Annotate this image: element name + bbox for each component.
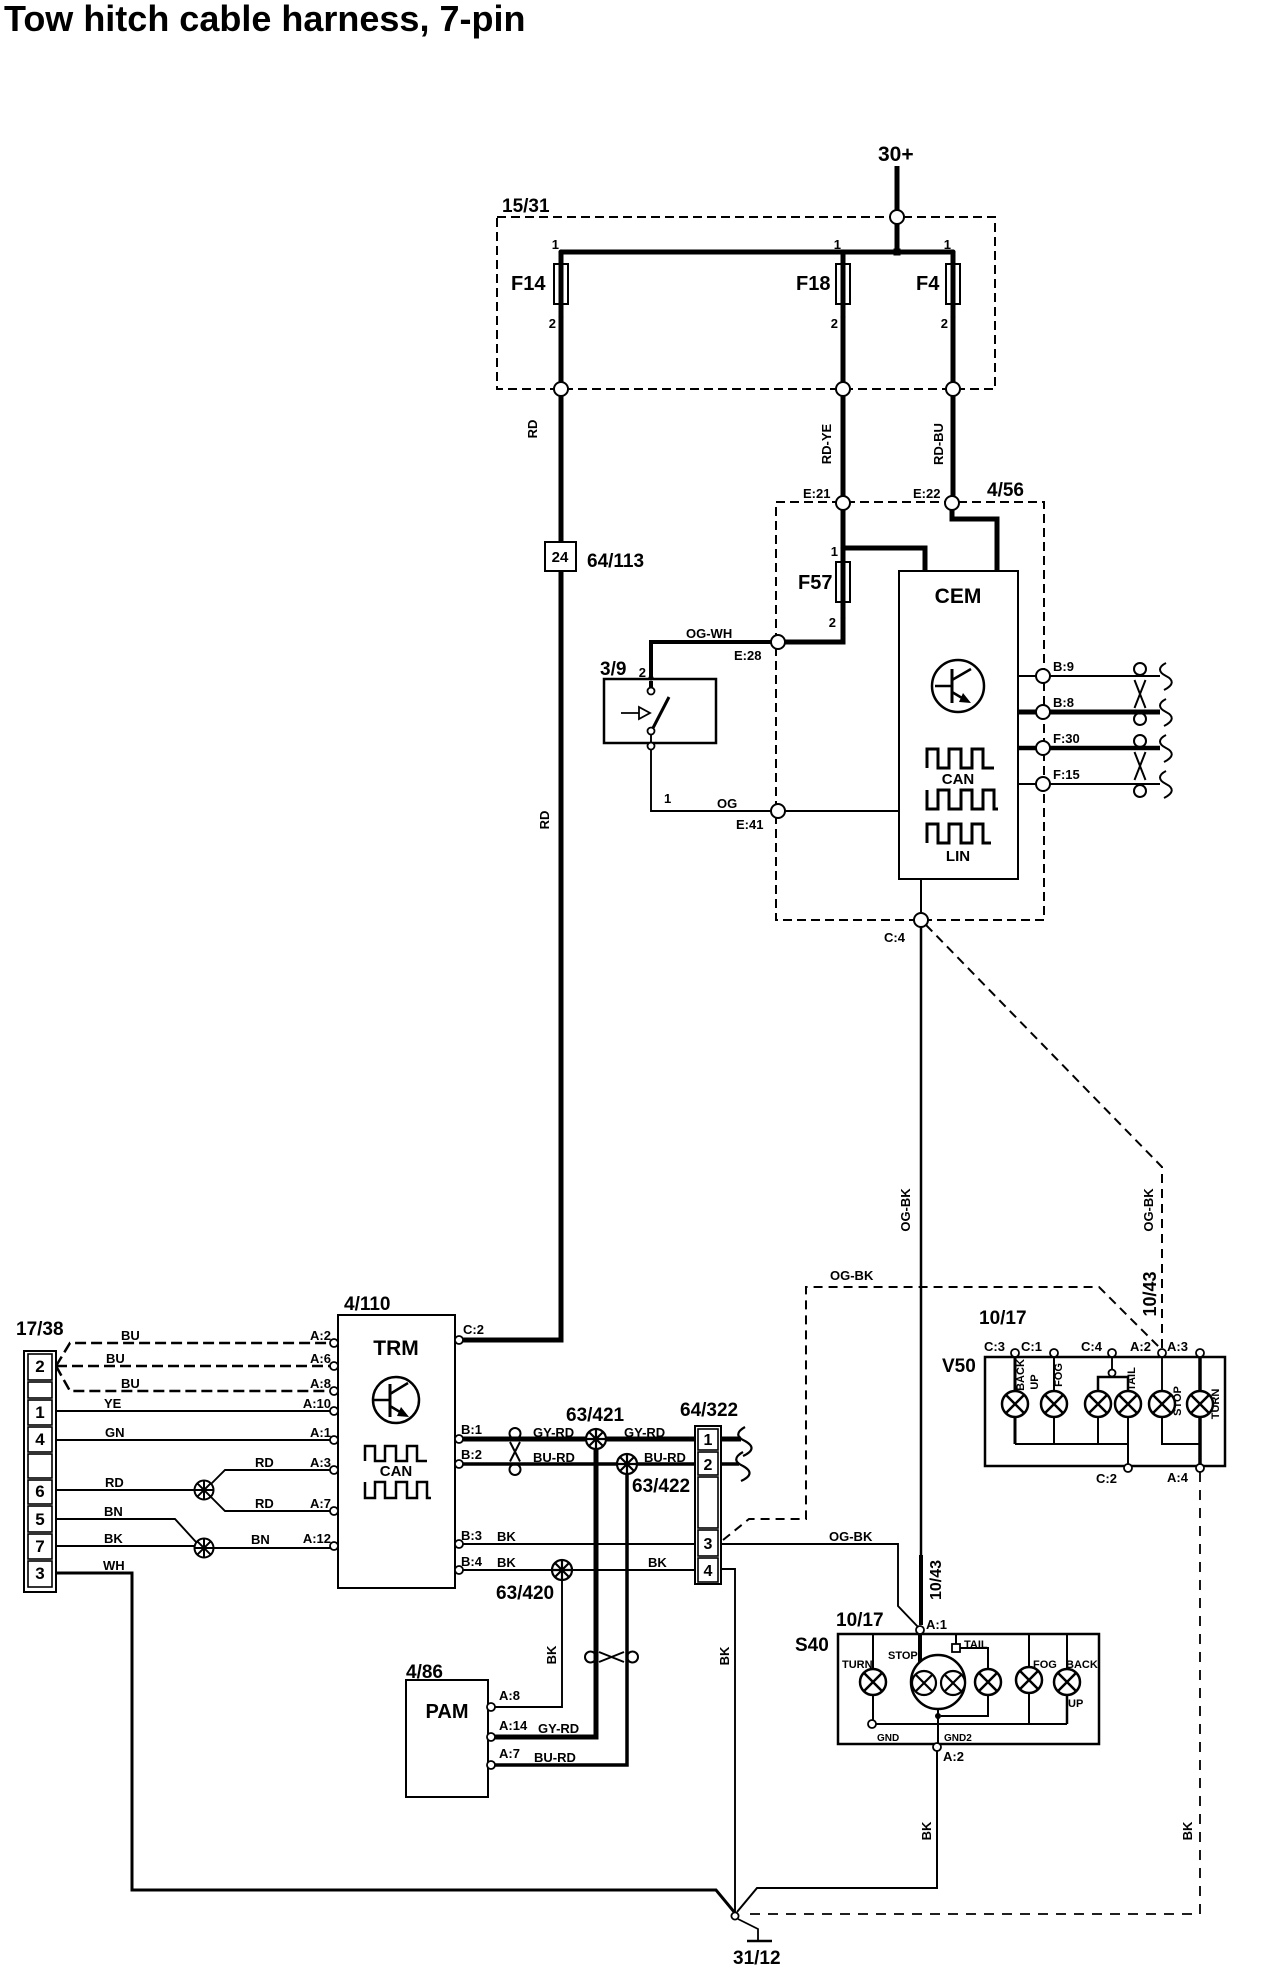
wire OG-BK dashed C:4 to V50 A:2 [926, 925, 1162, 1348]
wire break B:8 [1160, 699, 1172, 726]
svg-text:BN: BN [251, 1532, 270, 1547]
svg-text:BK: BK [1180, 1821, 1195, 1840]
wire BK 63/420 to PAM A:8 [493, 1580, 562, 1707]
svg-text:30+: 30+ [878, 143, 914, 166]
transistor symbol CEM [932, 660, 984, 712]
svg-text:OG-WH: OG-WH [686, 626, 732, 641]
wire RD splice to A:3 [211, 1455, 332, 1484]
wire BK pin 7 to splice [56, 1531, 195, 1546]
lamp unit S40 [795, 1610, 1099, 1744]
CAN symbol CEM [927, 749, 998, 809]
node pass-through at 15/31 top [890, 210, 904, 224]
node F18 box exit [836, 382, 850, 396]
module PAM 4/86 [406, 1662, 488, 1797]
wire RD-BU F4 to E:22 [931, 396, 953, 503]
pin A:4 V50 [1167, 1464, 1204, 1485]
svg-text:A:1: A:1 [926, 1617, 947, 1632]
connector 64/113 [545, 542, 644, 572]
svg-text:GY-RD: GY-RD [538, 1721, 579, 1736]
svg-text:CAN: CAN [380, 1463, 413, 1480]
svg-text:B:2: B:2 [461, 1447, 482, 1462]
svg-text:UP: UP [1029, 1374, 1041, 1389]
svg-text:OG-BK: OG-BK [829, 1529, 873, 1544]
svg-text:YE: YE [104, 1396, 122, 1411]
svg-text:OG-BK: OG-BK [1141, 1188, 1156, 1232]
svg-text:RD: RD [255, 1455, 274, 1470]
svg-text:1: 1 [944, 237, 951, 252]
module CEM [899, 571, 1018, 879]
svg-text:B:9: B:9 [1053, 659, 1074, 674]
svg-text:TRM: TRM [373, 1337, 419, 1360]
wire YE to A:10 [56, 1396, 332, 1411]
svg-text:F:15: F:15 [1053, 767, 1080, 782]
svg-text:A:8: A:8 [499, 1688, 520, 1703]
wire BK dashed A:4 to ground [742, 1472, 1200, 1914]
wire GN to A:1 [56, 1425, 332, 1440]
svg-text:F14: F14 [511, 273, 546, 295]
wire OG switch to E:41 [651, 750, 771, 811]
svg-text:A:2: A:2 [310, 1328, 331, 1343]
svg-text:STOP: STOP [888, 1650, 918, 1662]
connector 17/38 pin 4 [28, 1427, 52, 1452]
twisted pair GY-RD BU-RD [585, 1652, 638, 1663]
connector 64/322 pin 3 [698, 1530, 718, 1556]
svg-text:1: 1 [704, 1432, 713, 1449]
wire break F:30 [1160, 735, 1172, 762]
lamp STOP S40 [888, 1650, 965, 1709]
svg-text:10/17: 10/17 [979, 1308, 1027, 1329]
wire OG-BK dashed 64/322 pin3 to V50 [723, 1268, 1162, 1540]
pin A:7 PAM [487, 1746, 520, 1769]
wire E:41 to CEM [785, 810, 899, 812]
svg-text:B:4: B:4 [461, 1554, 483, 1569]
svg-text:C:2: C:2 [1096, 1471, 1117, 1486]
wire BU-RD B:2 to 64/322 pin 2 [463, 1450, 695, 1465]
node B:8 [1036, 705, 1050, 719]
svg-text:1: 1 [552, 237, 559, 252]
svg-text:4/56: 4/56 [987, 480, 1024, 501]
svg-text:64/113: 64/113 [587, 551, 644, 572]
svg-text:CAN: CAN [942, 771, 975, 788]
connector 17/38 blank cell a [28, 1382, 52, 1398]
wire V50 ground bus [1015, 1443, 1128, 1445]
lamp FOG S40 [1016, 1634, 1057, 1724]
lamp unit V50 [942, 1308, 1225, 1466]
wire S40 ground bus [873, 1709, 1067, 1743]
svg-text:A:6: A:6 [310, 1351, 331, 1366]
connector 17/38 pin 5 [28, 1506, 52, 1532]
pin C:3 V50 [984, 1339, 1019, 1357]
wire 30+ feed [894, 166, 901, 256]
splice BN-BK [195, 1539, 214, 1558]
svg-text:2: 2 [831, 316, 838, 331]
svg-text:A:1: A:1 [310, 1425, 331, 1440]
svg-text:63/420: 63/420 [496, 1583, 554, 1604]
svg-text:10/43: 10/43 [928, 1560, 945, 1600]
svg-text:E:22: E:22 [913, 486, 940, 501]
twisted pair F:30 F:15 [1134, 735, 1146, 797]
svg-text:BACK: BACK [1015, 1359, 1027, 1391]
connector 17/38 blank cell b [28, 1454, 52, 1478]
svg-text:BK: BK [648, 1555, 667, 1570]
node 30+ [878, 143, 914, 166]
svg-text:2: 2 [704, 1457, 713, 1474]
svg-text:F4: F4 [916, 273, 940, 295]
svg-text:5: 5 [35, 1510, 44, 1529]
pin A:1 S40 [916, 1617, 947, 1634]
transistor symbol TRM [373, 1377, 419, 1423]
wire break 64/322 pin 1 [738, 1427, 751, 1456]
wire break 64/322 pin 2 [736, 1452, 749, 1481]
pin A:6 [310, 1351, 338, 1370]
svg-text:FOG: FOG [1053, 1363, 1065, 1387]
lamp BACK UP S40 [1054, 1634, 1098, 1724]
CAN symbol TRM [365, 1446, 431, 1498]
svg-text:F18: F18 [796, 273, 830, 295]
wire F57 to E:28 [785, 618, 843, 642]
svg-text:UP: UP [1068, 1698, 1083, 1710]
wire CEM B:9 stub [1018, 659, 1160, 676]
svg-text:A:3: A:3 [310, 1455, 331, 1470]
pin B:3 [455, 1528, 482, 1548]
wire B:4 BK to 64/322 pin 4 [463, 1555, 695, 1570]
svg-text:17/38: 17/38 [16, 1319, 64, 1340]
node 10/43 label S40 feed [928, 1560, 945, 1600]
LIN symbol CEM [927, 824, 991, 865]
svg-text:10/43: 10/43 [1140, 1271, 1160, 1316]
svg-text:4: 4 [704, 1563, 713, 1580]
svg-text:63/422: 63/422 [632, 1476, 690, 1497]
wire BN splice to A:12 [213, 1532, 332, 1548]
wire BU dashed to A:2 [56, 1328, 332, 1366]
svg-text:CEM: CEM [935, 585, 982, 608]
connector 17/38 pin 1 [28, 1400, 52, 1425]
svg-text:2: 2 [35, 1357, 44, 1376]
fuse F57 [798, 548, 850, 630]
svg-text:C:3: C:3 [984, 1339, 1005, 1354]
splice 63/422 [617, 1454, 690, 1497]
node B:9 [1036, 669, 1050, 683]
node GND S40 [868, 1720, 899, 1744]
twisted pair B:9 B:8 [1134, 663, 1146, 725]
CEM housing 4/56 [776, 480, 1044, 920]
wire CEM F:30 stub [1018, 731, 1160, 748]
svg-text:PAM: PAM [426, 1701, 469, 1723]
svg-text:F57: F57 [798, 572, 832, 594]
lamp TURN S40 [842, 1634, 886, 1724]
node GND2 S40 [944, 1733, 972, 1744]
wire RD pin 6 to splice [56, 1475, 196, 1490]
svg-text:E:21: E:21 [803, 486, 830, 501]
fuse box 15/31 [497, 196, 995, 389]
pin C:2 [455, 1322, 484, 1344]
node 10/43 label V50 feed [1140, 1271, 1160, 1316]
svg-text:S40: S40 [795, 1635, 829, 1656]
pin A:14 PAM [487, 1718, 528, 1741]
svg-text:A:10: A:10 [303, 1396, 331, 1411]
wire WH pin 3 to ground [56, 1558, 735, 1913]
svg-text:A:7: A:7 [310, 1496, 331, 1511]
pin A:1 [310, 1425, 338, 1444]
connector 17/38 pin 2 [28, 1354, 52, 1380]
pin A:2 V50 [1130, 1339, 1166, 1357]
lamp TURN V50 [1187, 1357, 1222, 1464]
svg-text:E:41: E:41 [736, 817, 763, 832]
svg-text:2: 2 [549, 316, 556, 331]
svg-text:RD-BU: RD-BU [931, 423, 946, 465]
svg-text:RD: RD [255, 1496, 274, 1511]
svg-text:GND: GND [877, 1733, 899, 1744]
pin A:10 [303, 1396, 338, 1415]
svg-text:2: 2 [941, 316, 948, 331]
connector 17/38 pin 3 [28, 1561, 52, 1587]
connector 17/38 pin 6 [28, 1480, 52, 1504]
lamp TAIL S40 [941, 1634, 1001, 1716]
svg-text:LIN: LIN [946, 848, 970, 865]
svg-text:RD: RD [525, 420, 540, 439]
svg-text:BK: BK [497, 1555, 516, 1570]
svg-text:C:4: C:4 [884, 930, 906, 945]
svg-text:BU: BU [121, 1328, 140, 1343]
svg-text:6: 6 [35, 1482, 44, 1501]
svg-text:TAIL: TAIL [1126, 1367, 1138, 1391]
connector 64/322 pin 4 [698, 1558, 718, 1582]
pin A:8 [310, 1376, 338, 1395]
svg-text:WH: WH [103, 1558, 125, 1573]
wire B:3 BK to 64/322 pin 3 [463, 1529, 695, 1544]
svg-text:1: 1 [834, 237, 841, 252]
svg-text:A:14: A:14 [499, 1718, 528, 1733]
svg-text:A:7: A:7 [499, 1746, 520, 1761]
svg-text:RD-YE: RD-YE [819, 423, 834, 464]
svg-text:3/9: 3/9 [600, 659, 626, 680]
wire CEM B:8 stub [1018, 695, 1160, 712]
svg-text:TAIL: TAIL [964, 1639, 988, 1651]
module TRM 4/110 [338, 1294, 455, 1588]
wire E:21 to F57 and CEM [831, 510, 925, 571]
svg-text:A:3: A:3 [1167, 1339, 1188, 1354]
svg-text:1: 1 [831, 544, 838, 559]
svg-text:24: 24 [552, 549, 569, 566]
wire RD splice to A:7 [211, 1496, 332, 1511]
svg-text:OG: OG [717, 796, 737, 811]
wire BU-RD 63/422 to PAM A:7 [493, 1474, 627, 1765]
svg-text:GND2: GND2 [944, 1733, 972, 1744]
svg-text:A:4: A:4 [1167, 1470, 1189, 1485]
pin A:7 [310, 1496, 338, 1515]
node F:15 [1036, 777, 1050, 791]
wire A:1 to stop lamp [918, 1634, 922, 1663]
pin A:2 S40 [933, 1743, 964, 1764]
svg-text:BK: BK [919, 1821, 934, 1840]
svg-text:A:2: A:2 [1130, 1339, 1151, 1354]
ground node 31/12 [731, 1912, 780, 1969]
svg-text:B:8: B:8 [1053, 695, 1074, 710]
svg-text:1: 1 [35, 1403, 44, 1422]
fuse F4 [916, 237, 960, 389]
wire stub 64/322 pin 1 [721, 1437, 741, 1442]
svg-text:B:1: B:1 [461, 1422, 482, 1437]
svg-text:Tow hitch cable harness, 7-pin: Tow hitch cable harness, 7-pin [4, 0, 525, 39]
splice 63/420 [496, 1560, 572, 1604]
wire BK 64/322 pin 4 to ground [717, 1569, 735, 1913]
connector 64/322 pin 1 [698, 1429, 718, 1450]
wire BU dashed to A:6 [56, 1351, 332, 1366]
pin C:2 V50 [1096, 1464, 1132, 1486]
twisted pair B:1 B:2 [510, 1428, 521, 1475]
svg-text:BK: BK [104, 1531, 123, 1546]
pin B:2 [455, 1447, 482, 1468]
wire CEM F:15 stub [1018, 767, 1160, 784]
pin A:8 PAM [487, 1688, 520, 1711]
pin C:1 V50 [1021, 1339, 1058, 1357]
connector 17/38 pin 7 [28, 1534, 52, 1559]
svg-text:BK: BK [497, 1529, 516, 1544]
svg-text:V50: V50 [942, 1356, 976, 1377]
svg-text:OG-BK: OG-BK [898, 1188, 913, 1232]
svg-text:15/31: 15/31 [502, 196, 550, 217]
svg-text:GY-RD: GY-RD [533, 1425, 574, 1440]
svg-text:2: 2 [829, 615, 836, 630]
svg-text:BU-RD: BU-RD [533, 1450, 575, 1465]
pin A:3 [310, 1455, 338, 1474]
svg-text:3: 3 [35, 1564, 44, 1583]
node F14 box exit [554, 382, 568, 396]
connector 64/322 pin 2 [698, 1452, 718, 1475]
wire RD F14 to TRM C:2 [463, 396, 561, 1340]
svg-text:A:8: A:8 [310, 1376, 331, 1391]
node E:21 [803, 486, 850, 510]
svg-text:GY-RD: GY-RD [624, 1425, 665, 1440]
svg-text:BK: BK [717, 1646, 732, 1665]
pin A:3 V50 [1167, 1339, 1204, 1357]
wire stub 64/322 pin 2 [721, 1462, 739, 1466]
pin C:4 V50 [1081, 1339, 1116, 1357]
svg-text:C:1: C:1 [1021, 1339, 1042, 1354]
fuse F14 [511, 237, 568, 389]
svg-text:BU-RD: BU-RD [534, 1750, 576, 1765]
wire break B:9 [1160, 663, 1172, 690]
svg-text:GN: GN [105, 1425, 125, 1440]
title [4, 0, 525, 39]
svg-text:OG-BK: OG-BK [830, 1268, 874, 1283]
node E:41 [736, 804, 785, 832]
lamp STOP V50 [1149, 1357, 1200, 1444]
svg-text:63/421: 63/421 [566, 1405, 625, 1426]
wire OG-BK C:4 to S40 A:1 [898, 927, 921, 1625]
wire BK S40 A:2 to ground [737, 1751, 937, 1912]
fuse F18 [796, 237, 850, 389]
lamp TAIL pair V50 [1085, 1357, 1141, 1464]
svg-text:3: 3 [704, 1536, 713, 1553]
wire BN pin 5 to splice [56, 1504, 196, 1542]
connector 17/38 [16, 1319, 64, 1592]
pin A:2 [310, 1328, 338, 1347]
wire CEM bottom to C:4 [920, 879, 922, 913]
node E:22 [913, 486, 959, 510]
wire OG-WH E:28 to switch 3/9 [639, 626, 771, 681]
lamp FOG V50 [1041, 1357, 1067, 1444]
svg-text:A:12: A:12 [303, 1531, 331, 1546]
wire GY-RD B:1 to 64/322 pin 1 [463, 1425, 695, 1440]
pin B:4 [455, 1554, 483, 1574]
splice RD [195, 1481, 214, 1500]
splice 63/421 [566, 1405, 625, 1449]
wire break F:15 [1160, 771, 1172, 798]
svg-text:BU-RD: BU-RD [644, 1450, 686, 1465]
svg-text:7: 7 [35, 1537, 44, 1556]
pin B:1 [455, 1422, 482, 1443]
svg-text:C:2: C:2 [463, 1322, 484, 1337]
wire RD-YE F18 to E:21 [819, 396, 843, 503]
svg-text:BN: BN [104, 1504, 123, 1519]
svg-text:BU: BU [106, 1351, 125, 1366]
svg-text:31/12: 31/12 [733, 1948, 781, 1969]
svg-text:RD: RD [105, 1475, 124, 1490]
svg-text:64/322: 64/322 [680, 1400, 738, 1421]
svg-text:RD: RD [537, 811, 552, 830]
connector 64/322 blank cell [698, 1477, 718, 1528]
node C:4 [884, 913, 928, 945]
node F:30 [1036, 741, 1050, 755]
pin A:12 [303, 1531, 338, 1550]
wire bus bar [561, 250, 953, 255]
wire E:22 to CEM [952, 510, 997, 571]
svg-text:F:30: F:30 [1053, 731, 1080, 746]
svg-text:4/110: 4/110 [344, 1294, 391, 1315]
svg-text:BU: BU [121, 1376, 140, 1391]
wire BU dashed to A:8 [56, 1366, 332, 1391]
node E:28 [734, 635, 785, 663]
wire OG-BK 64/322 pin 3 to S40 A:1 [721, 1529, 919, 1628]
svg-text:B:3: B:3 [461, 1528, 482, 1543]
svg-text:10/17: 10/17 [836, 1610, 884, 1631]
node F4 box exit [946, 382, 960, 396]
svg-text:C:4: C:4 [1081, 1339, 1103, 1354]
connector 64/322 [680, 1400, 738, 1584]
svg-text:A:2: A:2 [943, 1749, 964, 1764]
switch 3/9 [600, 659, 716, 750]
wire GY-RD 63/421 to PAM A:14 [493, 1449, 596, 1737]
svg-text:BK: BK [544, 1645, 559, 1664]
svg-text:4: 4 [35, 1430, 45, 1449]
lamp BACK UP V50 [1002, 1357, 1041, 1444]
svg-text:1: 1 [664, 791, 671, 806]
svg-text:E:28: E:28 [734, 648, 761, 663]
